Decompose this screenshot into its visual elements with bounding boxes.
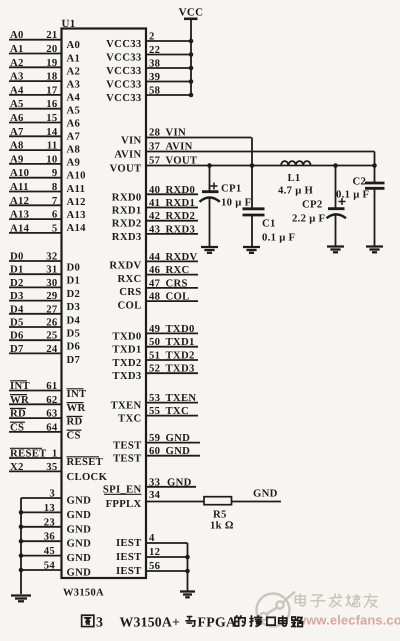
svg-text:A14: A14 <box>67 222 87 234</box>
svg-text:TXD3: TXD3 <box>112 370 141 382</box>
svg-text:A13: A13 <box>67 209 86 221</box>
svg-text:A6: A6 <box>67 118 81 130</box>
junction VOUT/CP1 <box>207 163 212 168</box>
svg-text:A3: A3 <box>10 71 24 83</box>
svg-text:W3150A: W3150A <box>63 588 104 599</box>
pin RXD0 (pin 40) <box>146 193 198 195</box>
svg-text:D1: D1 <box>67 275 81 287</box>
pin A13 (pin 6) <box>9 218 62 220</box>
pin A3 (pin 18) <box>9 80 62 82</box>
svg-text:A4: A4 <box>10 84 24 96</box>
svg-text:A1: A1 <box>10 43 24 55</box>
pin D4 (pin 27) <box>9 313 62 315</box>
svg-text:TEST: TEST <box>113 453 142 465</box>
svg-text:64: 64 <box>46 421 58 433</box>
wire: AVIN vertical drop at right <box>374 152 376 184</box>
svg-text:39: 39 <box>149 71 160 83</box>
svg-text:RXD2: RXD2 <box>166 210 196 222</box>
svg-text:D3: D3 <box>67 301 81 313</box>
pin TXD1 (pin 50) <box>146 346 198 348</box>
pin D3 (pin 29) <box>9 300 62 302</box>
svg-text:7: 7 <box>52 195 58 207</box>
svg-text:58: 58 <box>149 85 160 97</box>
pin GND (pin 54) <box>21 569 62 571</box>
svg-text:32: 32 <box>46 251 57 263</box>
svg-text:GND: GND <box>166 445 191 457</box>
pin CRS (pin 47) <box>146 287 198 289</box>
svg-text:A8: A8 <box>10 140 24 152</box>
svg-text:42: 42 <box>149 210 160 222</box>
junction VOUT/CP2 <box>333 163 338 168</box>
svg-text:30: 30 <box>46 277 57 289</box>
pin A2 (pin 19) <box>9 66 62 68</box>
svg-text:5: 5 <box>52 222 58 234</box>
svg-text:44: 44 <box>149 251 161 263</box>
svg-text:2.2 μ F: 2.2 μ F <box>292 213 326 225</box>
svg-text:A10: A10 <box>10 167 29 179</box>
junction on GND bus <box>19 525 24 530</box>
svg-text:35: 35 <box>46 461 57 473</box>
pin TXD0 (pin 49) <box>146 332 198 334</box>
pin VCC33 (pin 58) <box>146 94 191 96</box>
svg-text:40: 40 <box>149 184 160 196</box>
junction IEST pin12 <box>185 555 190 560</box>
junction on VCC rail <box>189 39 194 44</box>
junction on GND bus <box>19 510 24 515</box>
svg-text:TXD1: TXD1 <box>112 344 141 356</box>
svg-text:2: 2 <box>149 31 155 43</box>
svg-text:0.1 μ F: 0.1 μ F <box>336 189 370 201</box>
pin VCC33 (pin 39) <box>146 81 191 83</box>
svg-text:IEST: IEST <box>116 565 142 577</box>
pin VOUT (pin 57) + rail wire <box>146 165 375 167</box>
svg-text:CP2: CP2 <box>302 199 323 211</box>
svg-text:52: 52 <box>149 363 160 375</box>
svg-text:GND: GND <box>67 538 92 550</box>
svg-text:4: 4 <box>149 532 155 544</box>
pin D0 (pin 32) <box>9 260 62 262</box>
pin X2 (pin 35) <box>9 470 62 472</box>
svg-text:4.7 μ H: 4.7 μ H <box>278 185 314 197</box>
pin D6 (pin 25) <box>9 339 62 341</box>
svg-text:C2: C2 <box>353 176 367 188</box>
capacitor C1 0.1uF <box>243 207 265 210</box>
capacitor CP2 2.2uF (electrolytic) <box>335 166 337 209</box>
svg-text:D7: D7 <box>10 343 24 355</box>
svg-text:VIN: VIN <box>166 127 187 139</box>
svg-text:29: 29 <box>46 290 57 302</box>
svg-text:A2: A2 <box>67 65 81 77</box>
junction on GND bus <box>19 553 24 558</box>
svg-text:A12: A12 <box>10 195 29 207</box>
svg-text:VCC33: VCC33 <box>106 65 141 77</box>
svg-text:VOUT: VOUT <box>166 154 198 166</box>
svg-text:WR: WR <box>10 394 29 406</box>
svg-text:33: 33 <box>149 476 160 488</box>
svg-text:CS: CS <box>10 421 24 433</box>
pin A5 (pin 16) <box>9 108 62 110</box>
svg-text:60: 60 <box>149 445 160 457</box>
svg-text:TXD2: TXD2 <box>112 357 141 369</box>
svg-text:48: 48 <box>149 291 160 303</box>
pin GND (pin 45) <box>21 555 62 557</box>
pin AVIN (pin 37) + wire <box>146 151 375 153</box>
svg-text:CRS: CRS <box>119 286 141 298</box>
svg-text:INT: INT <box>10 380 30 392</box>
ground (IEST bus) <box>180 592 195 598</box>
pin VIN (pin 28) + wire <box>146 137 252 139</box>
svg-text:FPGA: FPGA <box>198 615 237 630</box>
svg-text:38: 38 <box>149 58 160 70</box>
svg-text:9: 9 <box>52 167 58 179</box>
svg-text:RXD3: RXD3 <box>166 223 196 235</box>
pin D5 (pin 26) <box>9 326 62 328</box>
wire: VCC rail vertical <box>190 19 192 95</box>
svg-text:AVIN: AVIN <box>166 141 193 153</box>
svg-text:24: 24 <box>46 343 58 355</box>
pin GND (pin 60) <box>146 455 200 457</box>
svg-text:36: 36 <box>44 531 56 543</box>
pin TXEN (pin 53) <box>146 402 198 404</box>
ground (C1) <box>243 247 260 253</box>
svg-text:28: 28 <box>149 127 160 139</box>
svg-text:D5: D5 <box>10 317 24 329</box>
svg-text:RXD1: RXD1 <box>112 205 142 217</box>
svg-text:62: 62 <box>46 394 57 406</box>
svg-text:A7: A7 <box>67 131 81 143</box>
svg-text:8: 8 <box>52 181 58 193</box>
watermark text dianzifashaoyou <box>295 594 305 606</box>
pin A1 (pin 20) <box>9 53 62 55</box>
junction VOUT/VIN/C1 <box>250 163 255 168</box>
CP2 plus sign <box>339 201 346 203</box>
pin TXD2 (pin 51) <box>146 359 198 361</box>
svg-text:RD: RD <box>67 416 83 428</box>
svg-text:CS: CS <box>67 429 81 441</box>
pin VCC33 (pin 38) <box>146 67 191 69</box>
svg-text:VOUT: VOUT <box>110 163 142 175</box>
svg-text:A13: A13 <box>10 209 29 221</box>
svg-text:GND: GND <box>166 432 191 444</box>
svg-text:TXC: TXC <box>118 413 141 425</box>
svg-text:21: 21 <box>46 29 57 41</box>
pin A9 (pin 10) <box>9 163 62 165</box>
ground (left GND bus) <box>11 596 31 602</box>
svg-text:59: 59 <box>149 432 160 444</box>
svg-text:RXC: RXC <box>117 273 141 285</box>
svg-text:RXD1: RXD1 <box>166 197 196 209</box>
svg-text:D1: D1 <box>10 264 24 276</box>
svg-text:23: 23 <box>44 516 55 528</box>
pin VCC33 (pin 2) <box>146 40 191 42</box>
svg-text:RXDV: RXDV <box>109 260 141 272</box>
svg-text:D0: D0 <box>67 262 81 274</box>
svg-text:0.1 μ F: 0.1 μ F <box>262 232 296 244</box>
svg-text:WR: WR <box>67 402 86 414</box>
svg-text:19: 19 <box>46 57 57 69</box>
svg-text:31: 31 <box>46 264 57 276</box>
svg-text:15: 15 <box>46 112 57 124</box>
wire: left GND bus vertical <box>20 498 22 594</box>
svg-text:TEST: TEST <box>113 440 142 452</box>
svg-text:17: 17 <box>46 84 58 96</box>
svg-text:1: 1 <box>52 448 58 460</box>
svg-text:16: 16 <box>46 98 58 110</box>
svg-text:TXEN: TXEN <box>111 400 142 412</box>
pin TXD3 (pin 52) <box>146 372 198 374</box>
svg-text:3: 3 <box>96 616 103 631</box>
svg-text:26: 26 <box>46 317 58 329</box>
svg-text:RESET: RESET <box>10 448 47 460</box>
pin CS (pin 64, active low) <box>9 431 62 433</box>
pin D1 (pin 31) <box>9 273 62 275</box>
svg-text:TXD0: TXD0 <box>166 323 195 335</box>
svg-text:RESET: RESET <box>67 456 104 468</box>
svg-text:A5: A5 <box>10 98 24 110</box>
svg-text:51: 51 <box>149 350 160 362</box>
svg-text:3: 3 <box>49 488 55 500</box>
pin TXC (pin 55) <box>146 415 198 417</box>
svg-text:GND: GND <box>67 567 92 579</box>
pin A12 (pin 7) <box>9 204 62 206</box>
pin GND (pin 3) <box>21 497 62 499</box>
svg-text:GND: GND <box>67 509 92 521</box>
svg-text:49: 49 <box>149 323 160 335</box>
svg-text:A12: A12 <box>67 196 86 208</box>
svg-text:56: 56 <box>149 560 161 572</box>
svg-text:www.elecfans.com: www.elecfans.com <box>295 613 400 628</box>
svg-text:CLOCK: CLOCK <box>67 471 108 483</box>
junction on VCC rail <box>189 52 194 57</box>
svg-text:D4: D4 <box>67 314 81 326</box>
pin GND (pin 59) <box>146 442 200 444</box>
svg-text:18: 18 <box>46 71 57 83</box>
svg-text:6: 6 <box>52 209 58 221</box>
pin GND (pin 23) <box>21 526 62 528</box>
svg-text:12: 12 <box>149 546 160 558</box>
pin GND (pin 33) <box>146 486 196 488</box>
svg-text:VCC33: VCC33 <box>106 92 141 104</box>
svg-text:GND: GND <box>67 495 92 507</box>
wire: R5 to GND label <box>232 501 282 503</box>
pin A4 (pin 17) <box>9 94 62 96</box>
svg-text:45: 45 <box>44 545 55 557</box>
figure caption <box>82 615 94 626</box>
wire: IEST bus vertical <box>187 543 189 591</box>
svg-text:63: 63 <box>46 408 57 420</box>
pin GND (pin 13) <box>21 511 62 513</box>
svg-text:11: 11 <box>47 140 58 152</box>
svg-text:TXD3: TXD3 <box>166 363 195 375</box>
svg-text:61: 61 <box>46 380 57 392</box>
ground (CP1) <box>201 247 218 253</box>
pin COL (pin 48) <box>146 300 198 302</box>
svg-text:A2: A2 <box>10 57 24 69</box>
CP1 plus sign <box>211 185 218 187</box>
junction on VCC rail <box>189 79 194 84</box>
svg-text:D2: D2 <box>10 277 24 289</box>
junction VOUT/AVIN/C2 <box>372 163 377 168</box>
svg-text:D4: D4 <box>10 303 24 315</box>
svg-text:GND: GND <box>67 552 92 564</box>
svg-text:VCC33: VCC33 <box>106 52 141 64</box>
svg-text:IEST: IEST <box>116 537 142 549</box>
svg-text:A8: A8 <box>67 144 81 156</box>
pin IEST (pin 56) <box>146 570 188 572</box>
pin RXD3 (pin 43) <box>146 233 198 235</box>
inductor L1 4.7uH <box>281 161 311 165</box>
svg-text:25: 25 <box>46 330 57 342</box>
svg-text:GND: GND <box>167 476 192 488</box>
svg-text:A5: A5 <box>67 104 81 116</box>
pin A7 (pin 14) <box>9 135 62 137</box>
capacitor C2 0.1uF <box>365 182 385 185</box>
pin RESET (pin 1, active low) <box>9 457 62 459</box>
svg-text:SPI_EN: SPI_EN <box>103 483 142 495</box>
svg-text:55: 55 <box>149 405 160 417</box>
wire: VIN vertical drop to VOUT rail and C1 <box>251 138 253 209</box>
svg-text:54: 54 <box>44 560 56 572</box>
svg-text:CRS: CRS <box>166 277 188 289</box>
svg-text:VCC33: VCC33 <box>106 38 141 50</box>
pin A8 (pin 11) <box>9 149 62 151</box>
pin VCC33 (pin 22) <box>146 54 191 56</box>
pin WR (pin 62, active low) <box>9 403 62 405</box>
svg-text:D6: D6 <box>67 341 81 353</box>
svg-text:27: 27 <box>46 303 58 315</box>
svg-text:COL: COL <box>117 299 141 311</box>
svg-text:D6: D6 <box>10 330 24 342</box>
svg-text:RXDV: RXDV <box>166 251 198 263</box>
svg-text:1k Ω: 1k Ω <box>210 520 234 532</box>
svg-text:RD: RD <box>10 408 26 420</box>
svg-text:D3: D3 <box>10 290 24 302</box>
svg-text:GND: GND <box>253 488 278 500</box>
resistor R5 1k ohm <box>204 497 232 505</box>
svg-text:RXD0: RXD0 <box>112 191 142 203</box>
svg-text:VCC: VCC <box>179 7 204 19</box>
svg-text:A4: A4 <box>67 91 81 103</box>
pin RXDV (pin 44) <box>146 260 198 262</box>
junction on GND bus <box>19 568 24 573</box>
pin A11 (pin 8) <box>9 191 62 193</box>
svg-text:D0: D0 <box>10 251 24 263</box>
pin RXC (pin 46) <box>146 274 198 276</box>
svg-text:57: 57 <box>149 154 161 166</box>
svg-text:A6: A6 <box>10 112 24 124</box>
svg-text:37: 37 <box>149 141 161 153</box>
pin INT (pin 61, active low) <box>9 390 62 392</box>
svg-text:D2: D2 <box>67 288 81 300</box>
svg-text:RXC: RXC <box>166 264 190 276</box>
svg-text:TXD1: TXD1 <box>166 336 195 348</box>
capacitor CP1 10uF (electrolytic) <box>209 166 211 192</box>
svg-text:L1: L1 <box>288 172 301 184</box>
svg-text:C1: C1 <box>262 218 276 230</box>
svg-text:W3150A+: W3150A+ <box>120 615 181 630</box>
ground (C2) <box>366 247 383 253</box>
svg-text:A10: A10 <box>67 170 86 182</box>
pin GND (pin 36) <box>21 540 62 542</box>
svg-text:D5: D5 <box>67 328 81 340</box>
svg-text:A14: A14 <box>10 222 30 234</box>
pin D2 (pin 30) <box>9 286 62 288</box>
pin FPPLX (pin 34) + wire through R5 <box>146 501 204 503</box>
svg-text:20: 20 <box>46 43 57 55</box>
svg-text:A3: A3 <box>67 78 81 90</box>
pin IEST (pin 12) <box>146 556 188 558</box>
svg-text:COL: COL <box>166 291 190 303</box>
ground (CP2) <box>327 247 344 253</box>
svg-text:A9: A9 <box>67 157 81 169</box>
svg-text:A0: A0 <box>10 29 24 41</box>
svg-text:50: 50 <box>149 336 160 348</box>
svg-text:47: 47 <box>149 277 161 289</box>
svg-text:46: 46 <box>149 264 161 276</box>
svg-text:FPPLX: FPPLX <box>106 498 142 510</box>
svg-text:VCC33: VCC33 <box>106 79 141 91</box>
pin IEST (pin 4) <box>146 542 188 544</box>
svg-text:TXEN: TXEN <box>166 392 197 404</box>
svg-text:A7: A7 <box>10 126 24 138</box>
pin A6 (pin 15) <box>9 122 62 124</box>
pin RD (pin 63, active low) <box>9 417 62 419</box>
svg-text:GND: GND <box>67 523 92 535</box>
svg-text:U1: U1 <box>62 18 76 30</box>
junction on VCC rail <box>189 66 194 71</box>
svg-text:TXD2: TXD2 <box>166 350 195 362</box>
svg-text:22: 22 <box>149 44 160 56</box>
svg-text:43: 43 <box>149 223 160 235</box>
pin A14 (pin 5) <box>9 232 62 234</box>
junction IEST pin56 <box>185 569 190 574</box>
svg-text:10: 10 <box>46 153 57 165</box>
pin RXD2 (pin 42) <box>146 220 198 222</box>
svg-text:TXD0: TXD0 <box>112 330 141 342</box>
svg-text:A0: A0 <box>67 39 81 51</box>
svg-text:53: 53 <box>149 392 160 404</box>
svg-text:VIN: VIN <box>121 135 142 147</box>
svg-text:D7: D7 <box>67 354 81 366</box>
svg-text:14: 14 <box>46 126 58 138</box>
svg-text:RXD3: RXD3 <box>112 231 142 243</box>
pin A10 (pin 9) <box>9 177 62 179</box>
svg-text:INT: INT <box>67 388 87 400</box>
svg-text:TXC: TXC <box>166 405 189 417</box>
junction on VCC rail <box>189 93 194 98</box>
pin A0 (pin 21) <box>9 39 62 41</box>
IC U1 W3150A chip body <box>62 29 147 579</box>
svg-text:X2: X2 <box>10 461 24 473</box>
watermark logo circle <box>257 592 296 627</box>
svg-text:A11: A11 <box>10 181 29 193</box>
svg-text:A1: A1 <box>67 52 81 64</box>
svg-text:A11: A11 <box>67 183 86 195</box>
svg-text:10 μ F: 10 μ F <box>221 197 252 209</box>
svg-text:CP1: CP1 <box>221 183 242 195</box>
svg-text:A9: A9 <box>10 153 24 165</box>
junction on GND bus <box>19 539 24 544</box>
svg-text:34: 34 <box>149 489 161 501</box>
svg-text:IEST: IEST <box>116 551 142 563</box>
svg-text:RXD0: RXD0 <box>166 184 196 196</box>
svg-text:13: 13 <box>44 502 55 514</box>
svg-text:RXD2: RXD2 <box>112 218 142 230</box>
svg-text:AVIN: AVIN <box>114 149 141 161</box>
pin RXD1 (pin 41) <box>146 207 198 209</box>
pin D7 (pin 24) <box>9 352 62 354</box>
svg-text:41: 41 <box>149 197 160 209</box>
